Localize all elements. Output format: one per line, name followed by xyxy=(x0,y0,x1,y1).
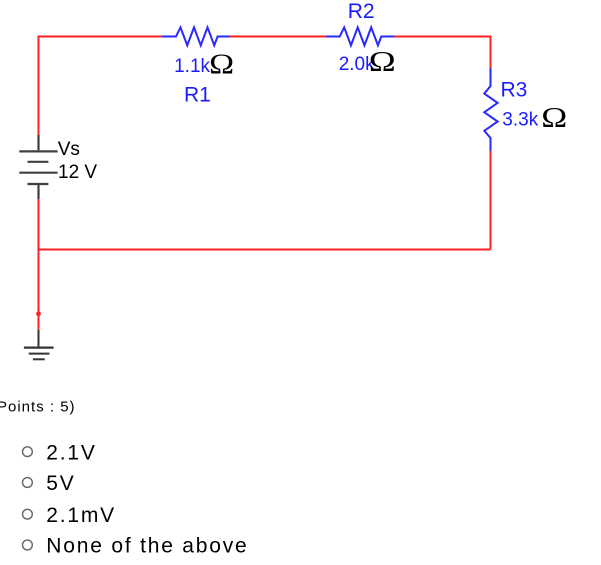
junction node dot xyxy=(36,311,41,316)
option 2 text xyxy=(46,472,75,495)
wire top-middle segment xyxy=(230,36,327,38)
ground xyxy=(24,330,54,359)
svg-text:None of the above: None of the above xyxy=(46,535,248,558)
R2 designator label xyxy=(348,0,375,23)
voltage source VS battery symbol xyxy=(19,135,57,199)
option 4 text xyxy=(46,535,248,558)
svg-text:2.1mV: 2.1mV xyxy=(46,504,116,527)
wire bottom segment xyxy=(39,249,491,251)
radio button option 4 xyxy=(23,540,33,550)
svg-text:Ω: Ω xyxy=(541,103,567,134)
R1 designator label xyxy=(184,83,211,106)
svg-text:Ω: Ω xyxy=(209,50,234,81)
wire right lower (R3 to bottom wire) xyxy=(490,151,492,250)
radio button option 1 xyxy=(23,447,33,457)
svg-text:2.1V: 2.1V xyxy=(46,441,96,464)
wire left (battery to ground stub, through bottom node) xyxy=(38,199,40,331)
svg-text:1.1k: 1.1k xyxy=(174,56,210,77)
Vs value label 12 V xyxy=(58,162,97,183)
svg-text:R2: R2 xyxy=(348,0,375,23)
wire top-right segment xyxy=(394,37,491,38)
wire top-left segment xyxy=(39,36,164,37)
radio button option 2 xyxy=(23,478,33,488)
option 1 text xyxy=(46,441,96,464)
option 3 text xyxy=(46,504,116,527)
R2 ohm symbol xyxy=(369,47,396,78)
radio button option 3 xyxy=(23,509,33,519)
Vs name label xyxy=(58,139,80,160)
R3 ohm symbol xyxy=(541,103,567,134)
svg-text:5V: 5V xyxy=(46,472,75,495)
R1 ohm symbol xyxy=(209,50,234,81)
resistor R1 xyxy=(162,27,230,45)
svg-text:R3: R3 xyxy=(501,79,528,102)
svg-text:12 V: 12 V xyxy=(58,162,97,183)
wire right upper (top wire to R3) xyxy=(490,37,492,69)
wire left (top wire to battery) xyxy=(38,37,40,136)
svg-text:3.3k: 3.3k xyxy=(502,110,538,131)
svg-text:R1: R1 xyxy=(184,83,211,106)
resistor R2 xyxy=(326,27,394,45)
resistor R3 xyxy=(484,68,497,151)
question points text xyxy=(0,398,76,415)
svg-text:Vs: Vs xyxy=(58,139,80,160)
R3 designator label xyxy=(501,79,528,102)
R3 value label 3.3k xyxy=(502,110,538,131)
svg-text:Points : 5): Points : 5) xyxy=(0,398,76,415)
R1 value label 1.1k xyxy=(174,56,210,77)
R2 value label 2.0k xyxy=(339,54,375,75)
svg-text:Ω: Ω xyxy=(369,47,396,78)
